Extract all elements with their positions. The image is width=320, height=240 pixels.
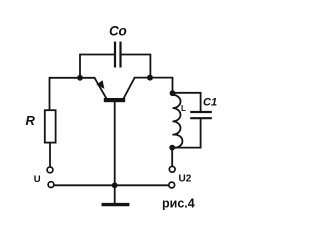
svg-text:U: U: [34, 174, 41, 185]
wire tank bottom rail from C1: [172, 119, 200, 148]
node D junction dot (tank bottom): [169, 145, 175, 151]
svg-text:рис.4: рис.4: [162, 197, 195, 211]
wire collector horizontal (bend to junction B to tank corner): [135, 78, 173, 94]
transistor Q1 emitter lead: [95, 78, 108, 100]
transistor Q1 emitter arrow: [96, 80, 104, 89]
wire top rail right (Co right plate to junction B riser): [121, 55, 150, 78]
terminal U lower circle: [48, 182, 54, 188]
ground symbol: [102, 203, 130, 206]
wire bottom rail (left terminal to right terminal through junction E): [55, 184, 168, 186]
svg-text:Co: Co: [109, 24, 127, 39]
node A junction dot: [77, 75, 83, 81]
terminal U upper circle: [47, 167, 53, 173]
terminal U2 upper circle: [169, 166, 175, 172]
wire transistor base lead down to ground: [114, 102, 116, 204]
wire tank top rail to C1: [173, 93, 201, 111]
inductor L coil: [173, 93, 183, 148]
capacitor C0 plates: [115, 42, 121, 68]
terminal U2 lower circle: [169, 182, 175, 188]
capacitor C1 plates: [190, 112, 212, 118]
svg-text:U2: U2: [179, 174, 192, 185]
wire resistor bottom lead: [49, 143, 51, 167]
transistor Q1 collector lead: [123, 78, 135, 100]
wire right terminal drop: [171, 148, 173, 166]
resistor R body: [45, 110, 56, 142]
svg-text:R: R: [26, 113, 36, 128]
wire top rail left (junction A riser to Co left plate): [80, 55, 114, 78]
node E junction dot (base/bottom rail): [112, 182, 118, 188]
transistor Q1 base bar: [104, 98, 125, 102]
svg-text:C1: C1: [203, 97, 217, 109]
wire left horizontal (R top corner to emitter bend): [50, 78, 95, 110]
node B junction dot: [147, 75, 153, 81]
node C junction dot (tank top): [170, 90, 176, 96]
svg-text:L: L: [181, 104, 186, 113]
